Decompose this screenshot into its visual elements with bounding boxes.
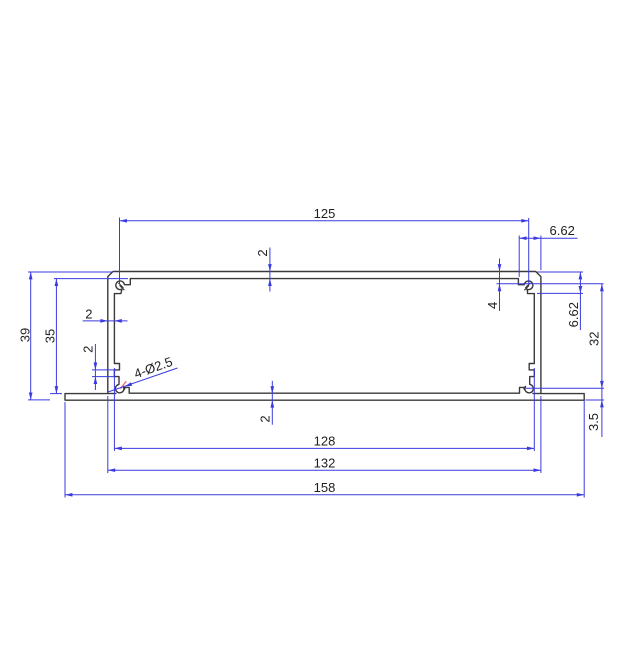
base top line under left wall (108, 393, 117, 395)
svg-text:35: 35 (43, 329, 58, 343)
dimension 128 bottom (114, 368, 534, 451)
svg-text:6.62: 6.62 (550, 223, 575, 238)
dimension 32 right (526, 284, 604, 389)
svg-text:2: 2 (255, 249, 270, 256)
svg-text:125: 125 (314, 206, 336, 221)
dimension 2 rib slot left (92, 344, 114, 390)
dimension 2 top wall thickness (269, 248, 271, 292)
boss hatch marks top-right (524, 283, 530, 290)
svg-text:3.5: 3.5 (586, 413, 601, 431)
dimension 4 top-right (497, 259, 604, 312)
base top line under right wall (532, 393, 541, 395)
profile inner contour (114, 279, 534, 394)
dimension 6.62 vertical right (537, 272, 583, 330)
svg-text:2: 2 (80, 346, 95, 353)
dimension 125 (120, 218, 529, 284)
dimension 39 left (28, 272, 113, 400)
dimension 132 bottom (108, 396, 541, 473)
dimension 3.5 right (586, 388, 605, 437)
dimension 158 bottom (65, 401, 584, 498)
boss hatch marks top-left (118, 283, 124, 290)
svg-text:2: 2 (85, 306, 92, 321)
svg-text:4-Ø2.5: 4-Ø2.5 (132, 354, 174, 381)
svg-text:132: 132 (314, 456, 336, 471)
dimension 35 left (50, 279, 128, 394)
svg-text:6.62: 6.62 (566, 302, 581, 327)
profile outer contour (65, 272, 584, 401)
svg-text:158: 158 (314, 480, 336, 495)
svg-text:39: 39 (18, 328, 33, 342)
leader 4-diameter2.5 (108, 368, 178, 392)
dimension 2 base thickness (271, 381, 273, 425)
dimension 2 left wall thickness (83, 320, 128, 322)
dimension 6.62 horizontal top-right (519, 236, 577, 278)
svg-text:32: 32 (586, 332, 601, 346)
svg-text:4: 4 (485, 302, 500, 309)
svg-text:2: 2 (258, 415, 273, 422)
svg-text:128: 128 (314, 434, 336, 449)
red highlight line at bottom-left boss (120, 381, 126, 389)
